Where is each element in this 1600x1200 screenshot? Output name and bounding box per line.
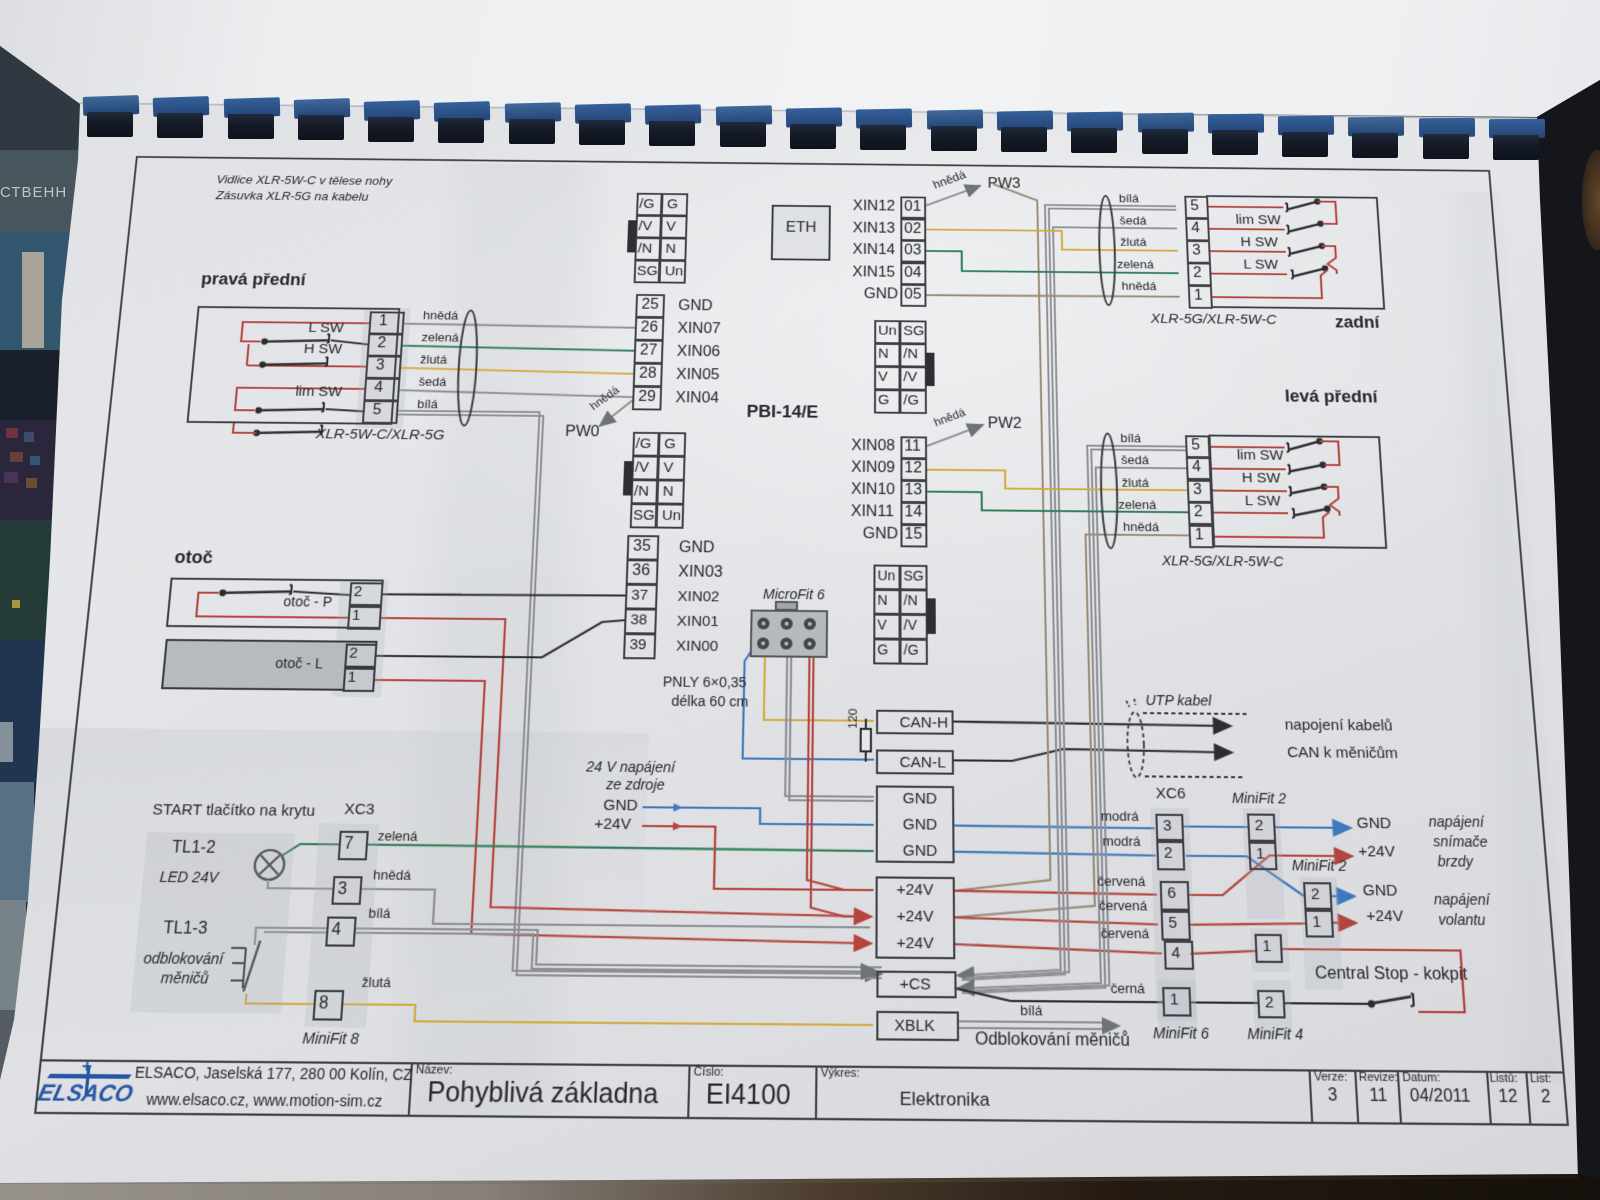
cell N [656,480,685,505]
cell V [660,215,687,238]
pin 2 pravá přední [367,333,404,356]
pin 4 levá [1186,457,1212,480]
net GND box [876,785,955,863]
shade mf42 [1252,980,1293,1035]
div vykres|verze [1308,1069,1313,1124]
pin 37 [625,584,658,610]
wire žlutá pin3 to XIN05 [401,368,634,374]
cell N [873,589,900,615]
cell /V [900,614,928,640]
UTP kabel dashed shield [1126,699,1251,779]
cell /G [900,639,928,665]
wire hnědá +24V row2 up to PW2/levá [951,533,1203,919]
pin 38 [624,608,657,634]
wire červená +24V row3 to XC6-4 [954,944,1162,953]
shade behind pravá pins [356,308,411,429]
cell SG [899,320,926,344]
wire MicroFit red2 to +24V row2 [811,658,862,917]
wire červená +24V row2 to XC6-5 [954,917,1158,924]
div listu|list [1525,1071,1531,1126]
pin 1 mid [1254,934,1283,963]
drawing frame border [34,156,1569,1126]
cell Un [874,320,900,344]
pin 04 [900,262,926,285]
pin 11 [900,436,927,459]
pin 7 XC3 [338,831,369,861]
pin 1 levá [1188,524,1214,547]
comb tooth 12 [856,108,912,128]
wire otoč-L pin2 to XIN01 [377,618,625,658]
pin 1 otoč-P [347,606,382,630]
pin 3 pravá přední [365,355,402,379]
wire zelená pin2 to XIN06 [402,346,634,351]
net CAN-H box [876,710,954,735]
pin 05 [900,284,926,307]
tab UnSG-A [926,353,935,386]
shade behind otoč pins [332,579,389,697]
wire bílá pin5 pair down to +CS [360,411,883,978]
wire MicroFit grey pair to GND [785,658,874,801]
wire šedá levá row4 [962,466,1207,993]
resistor 120 CAN terminator [861,719,871,762]
pin 2 MiniFit4 [1257,990,1286,1019]
comb tooth 18 [1278,116,1334,136]
pin 1 MiniFit2b [1304,910,1334,938]
cell SG [900,565,928,591]
shade box1 [1250,928,1290,971]
tab XLR-A [627,220,637,252]
pin 6 XC6 [1160,881,1190,911]
wire PW3 hnědá arrow [926,185,980,206]
comb tooth 11 [786,107,842,127]
connector MicroFit6 body [750,610,828,658]
MicroFit6 pin 3 center [808,622,812,626]
pin 1 zadní [1188,285,1213,309]
wire bílá XBLK out arrow [958,1016,1121,1035]
pin 39 [623,633,656,659]
pin 03 [900,240,926,263]
cable ellipse pravá přední [455,310,479,425]
pin 2 zadní [1187,263,1212,287]
shade mf64 [1158,979,1198,1034]
wire červená +24V row1 to XC6-6 [954,891,1157,895]
MicroFit6 pin 4 [757,637,769,649]
MicroFit6 pin 5 center [784,642,788,646]
right dark background [1500,0,1600,1200]
wire červená XC6-5 to MiniFit2b-1 and +24V arrow [1189,922,1356,927]
comb tooth 14 [997,111,1053,131]
cell SG [630,503,658,528]
wire žlutá XIN09 to levá3 [926,470,1187,491]
MicroFit6 pin 1 center [761,621,765,625]
comb tooth 9 [645,104,701,124]
wire žlutá XIN13 to zadní3 [925,229,1178,250]
cell V [874,366,900,390]
pin 2 XC6 [1156,841,1185,871]
pin 2 MiniFit2 [1247,813,1276,841]
connector switches pravá přední (L SW / H SW / lim SW) [227,322,369,437]
comb tooth 17 [1208,114,1264,134]
connector otoč-P outline [166,578,384,629]
cell /V [635,215,662,238]
connector levá outline [1208,435,1387,549]
connector XLR-A left col [634,193,663,283]
wire otoč-L pin1 red down to +24V row3 [357,680,872,944]
cell /N [900,589,928,615]
cable ellipse zadní [1098,196,1116,305]
comb tooth 4 [294,98,351,119]
shade xc6 col [1150,807,1197,1021]
wire zelená XIN10 to levá2 [926,492,1188,513]
pin 01 [900,196,926,218]
wire MicroFit žlutá to CAN-H [764,657,874,720]
MicroFit6 pin 5 [780,638,792,650]
net +24V box [875,876,955,959]
pin 25 [635,294,665,318]
MicroFit6 pin 6 center [808,642,812,646]
wire hnědá GND05 to zadní1 [925,294,1179,297]
cell Un [656,503,685,528]
pin 3 zadní [1186,240,1211,264]
cell V [873,614,900,640]
MicroFit6 tab [775,601,798,611]
cell SG [634,260,661,284]
title block top line [40,1059,1565,1073]
wire LED to XC3-3 hnědá [268,880,333,889]
shade mf2b col [1300,877,1344,990]
wire hnědá XC3-3 right [358,889,870,927]
pin 5 zadní [1184,196,1209,219]
switch otoč-L [191,645,346,679]
pin 12 [900,458,927,481]
pin 1 otoč-L [343,668,376,692]
switch otoč-P [196,584,350,618]
wire bílá XC3-4 pair [253,928,882,972]
tab UnSG-B [927,598,936,634]
net XBLK box [876,1011,959,1041]
wire otoč-P pin2 to XIN02 [383,593,625,596]
cell N [659,237,687,261]
node PW0 arrow hnědá [600,399,634,427]
wire MicroFit red to +24V [807,658,862,890]
wire modrá GND row3 to XC6-2 [954,852,1156,856]
pin 36 [626,559,659,585]
cell /G [636,193,663,216]
cell G [874,389,900,414]
cell G [658,432,686,457]
wire červená XC6-4 to box1 and Central Stop loop [1190,948,1465,1012]
cell N [874,343,900,367]
shade start group [130,832,295,1013]
wire PW2 hnědá arrow [927,424,983,446]
cell G [661,193,688,216]
switches zadní lim/H/L SW [1207,197,1341,298]
connector otoč-L outline [161,639,378,691]
comb tooth 21 [1489,119,1545,138]
wire CAN-H out [953,722,1231,726]
pin 1 MiniFit2 [1248,842,1277,871]
connector zadní outline [1206,195,1385,310]
MicroFit6 pin 1 [757,618,769,630]
pin 29 [632,386,662,411]
wire šedá zadní row4 [960,226,1206,979]
comb tooth 6 [434,101,491,122]
pin 1 MiniFit6 [1162,987,1192,1017]
pin 15 [900,524,927,547]
pin 8 XC3 [312,990,344,1021]
wire modrá XC6-2 cross to MiniFit2b-2 and GND arrow [1186,856,1355,896]
pin 3 XC6 [1155,814,1184,841]
comb tooth 13 [927,110,983,130]
div logo|nazev [408,1062,413,1117]
comb tooth 2 [153,96,210,117]
shade xc3 col [304,823,379,1027]
cell /N [634,237,661,261]
wire MicroFit blue to CAN-L [743,645,875,759]
pin 4 pravá přední [363,378,400,402]
comb tooth 5 [364,100,421,121]
pin 4 XC6 [1164,941,1194,970]
comb tooth 19 [1348,117,1404,137]
brown object right [1582,150,1600,250]
wire žlutá XC3-8 [244,994,873,1025]
tab XLR-B [623,461,633,495]
div nazev|cislo [687,1064,691,1119]
cell /V [899,366,926,390]
comb tooth 16 [1138,113,1194,133]
MicroFit6 pin 2 [781,618,793,630]
MicroFit6 pin 2 center [785,622,789,626]
wire zelená XC3-7 long to GND [281,844,874,862]
MicroFit6 pin 3 [804,618,816,630]
wire černá MiniFit6-1 to MiniFit4-2 to switch [1190,992,1414,1008]
comb tooth 3 [224,97,281,118]
wire CAN-L out [953,748,1233,763]
pin 27 [634,340,664,364]
cable ellipse levá [1100,434,1119,549]
net +CS box [876,971,956,999]
pin 3 levá [1187,480,1213,503]
div revize|datum [1397,1070,1403,1125]
pin 4 zadní [1185,218,1210,241]
shade mf2 col [1243,808,1285,919]
ELSACO logo [36,1064,140,1116]
cell G [873,638,900,664]
comb tooth 7 [505,102,561,122]
wire GND source blue [642,803,874,825]
cell /N [631,479,659,504]
button TL1-3 symbol [228,940,261,991]
pin 5 levá [1185,435,1210,458]
pin 5 XC6 [1161,911,1191,941]
MicroFit6 pin 6 [803,638,815,650]
cell /V [631,455,659,480]
comb tooth 15 [1067,112,1123,132]
wire +24V source red [640,822,874,890]
wire zelená XIN14 to zadní2 [925,251,1178,273]
pin 02 [900,218,926,241]
connector pravá přední outline [187,306,401,425]
comb tooth 8 [575,103,631,123]
pin 13 [900,480,927,503]
backing sheet (page behind, above binding) [0,0,1600,140]
wire bílá zadní pair to +CS [952,204,1206,982]
comb tooth 1 [83,95,140,116]
wire černá +CS to MiniFit6-1 [957,989,1163,1003]
pin 5 pravá přední [362,400,399,424]
comb tooth 20 [1419,118,1475,137]
pin 2 levá [1188,502,1214,525]
pin 4 XC3 [325,916,357,946]
div datum|listu [1486,1071,1492,1126]
pin 2 MiniFit2b [1303,882,1333,910]
module ETH [771,205,831,261]
pin 1 pravá přední [368,311,405,334]
wire modrá GND row2 to XC6-3 [953,826,1154,829]
MicroFit6 pin 4 center [761,641,765,645]
wire šedá pin4 to XIN04 [399,390,632,397]
cell /N [899,343,926,367]
switches levá lim/H/L SW [1210,437,1344,538]
cell V [657,456,685,481]
pin 35 [627,535,660,561]
cell Un [873,565,900,591]
connector UnSG-A left col [874,320,900,413]
left background poster [0,0,90,1100]
pin 2 otoč-L [344,644,377,668]
wire bílá levá pair to +CS [954,444,1207,995]
wire hnědá +24V row1 up to PW3/zadní [949,184,1051,892]
wire hnědá pin1 to XIN07 [404,324,635,328]
pin 28 [633,363,663,387]
net CAN-L box [876,749,954,774]
cell Un [659,260,687,284]
pin 2 otoč-P [349,582,384,606]
pin 3 XC3 [331,876,362,905]
LED TL1-2 symbol [254,850,286,880]
connector XLR-B left col [630,432,660,528]
wire otoč-P pin1 red down to +24V row2 [361,618,872,917]
div cislo|vykres [815,1065,818,1120]
cell /G [899,389,926,414]
pin 26 [634,317,664,341]
cell /G [632,432,659,457]
bottom table strip [0,1160,1600,1200]
pin 14 [900,502,927,525]
wire červená XC6-6 cross to MiniFit2-1 and +24V arrow [1187,855,1355,897]
wire modrá XC6-3 to MiniFit2-2 and GND arrow [1183,826,1351,827]
connector UnSG-B left col [873,565,900,664]
comb tooth 10 [716,105,772,125]
div verze|revize [1354,1070,1359,1125]
